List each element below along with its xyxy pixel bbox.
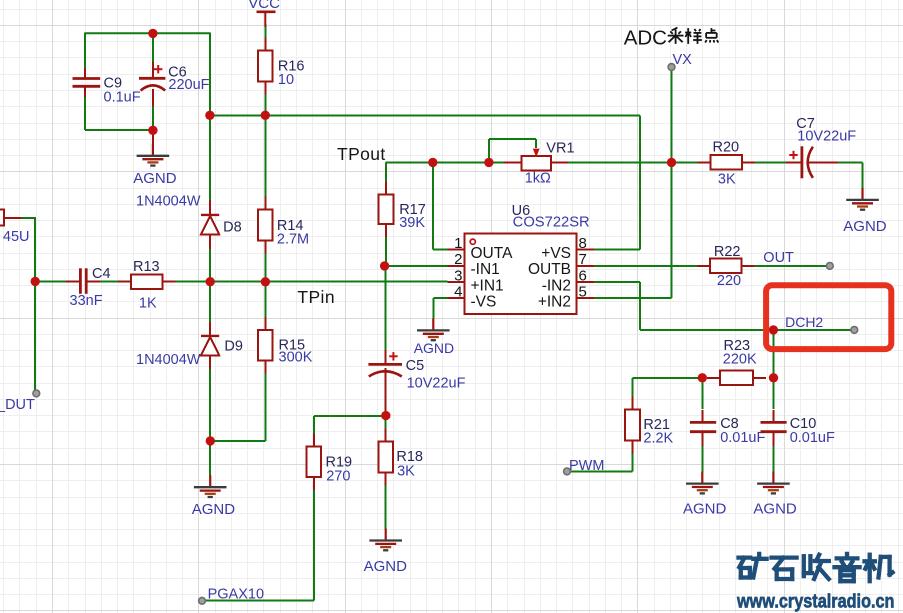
svg-text:OUTB: OUTB [528, 261, 571, 278]
svg-text:1N4004W: 1N4004W [136, 193, 201, 209]
capacitor C6 (polarized) [139, 62, 210, 106]
svg-text:COS722SR: COS722SR [513, 215, 590, 231]
wire R14 to TPin net [264, 245, 266, 282]
wire C10 to ground [772, 433, 774, 472]
wire pin8 riser [639, 115, 641, 249]
svg-text:_DUT: _DUT [0, 397, 35, 413]
potentiometer VR1 [503, 140, 574, 186]
resistor R20 [698, 139, 755, 187]
power VCC symbol [257, 12, 276, 27]
svg-text:OUTA: OUTA [471, 245, 514, 262]
capacitor C9 [73, 68, 141, 105]
wire top loop C9-C6 horizontal [85, 32, 210, 34]
svg-text:AGND: AGND [133, 170, 177, 187]
resistor R14 [258, 197, 309, 254]
svg-text:TPout: TPout [337, 144, 386, 164]
port DCH2 [851, 327, 858, 334]
junction C6 bottom [148, 126, 157, 135]
wire R21 to PWM [632, 452, 634, 471]
port OUT [826, 263, 833, 270]
junction bus / C loop [205, 111, 214, 120]
wire +VS bus y115 [210, 114, 640, 116]
resistor R18 [378, 429, 423, 486]
svg-text:R20: R20 [713, 139, 740, 155]
wire TPout to pin1 drop [432, 162, 434, 249]
wire bus to R14 [264, 115, 266, 199]
wire R23 to C8 [701, 378, 703, 409]
svg-text:300K: 300K [279, 349, 313, 365]
wire C5 to node [385, 406, 387, 416]
wire C9 bottom drop [84, 87, 86, 131]
svg-text:OUT: OUT [763, 250, 794, 266]
svg-text:0.1uF: 0.1uF [104, 89, 141, 105]
junction R23 left / C8 [698, 373, 707, 382]
svg-text:VX: VX [673, 52, 693, 68]
svg-text:C5: C5 [406, 358, 425, 374]
wire down to R21 [632, 378, 634, 398]
wire VR1 loop top [489, 138, 536, 140]
wire C8 to ground [701, 433, 703, 472]
svg-text:6: 6 [579, 267, 587, 284]
wire TPout to R17 [385, 162, 387, 182]
resistor R17 [379, 182, 426, 238]
wire C6 top drop [152, 33, 154, 64]
junction TPout / VX [667, 158, 676, 167]
junction bus / R16-R14 [261, 111, 270, 120]
wire C6 bottom drop [152, 104, 154, 130]
svg-text:www.crystalradio.cn: www.crystalradio.cn [736, 590, 894, 612]
ground AGND under D9 [194, 475, 227, 497]
svg-text:10V22uF: 10V22uF [407, 375, 466, 391]
ground AGND under C8 [686, 472, 719, 494]
svg-text:270: 270 [326, 469, 350, 485]
svg-text:1kΩ: 1kΩ [525, 171, 551, 187]
ground AGND at C7 [846, 188, 879, 210]
svg-text:-IN1: -IN1 [471, 261, 500, 278]
wire bottom C9-C6 [85, 129, 153, 131]
svg-text:R22: R22 [714, 244, 741, 260]
svg-text:10: 10 [278, 72, 294, 88]
svg-text:-IN2: -IN2 [542, 277, 571, 294]
junction R23 right / C10 [769, 373, 778, 382]
svg-text:AGND: AGND [414, 340, 454, 356]
svg-text:AGND: AGND [683, 501, 727, 518]
wire bus to D8 [209, 115, 211, 203]
junction DCH2 / R23 [769, 325, 778, 334]
wire down to AGND at C7 [862, 162, 864, 188]
resistor R15 [258, 317, 313, 374]
capacitor C5 (polarized) [368, 350, 465, 415]
wire PWM [567, 470, 633, 472]
svg-text:+IN2: +IN2 [538, 294, 571, 311]
svg-text:8: 8 [579, 235, 587, 252]
capacitor C7 (polarized) [786, 116, 856, 178]
wire C6 ground stem [152, 130, 154, 146]
wire node to R19 branch [314, 415, 386, 417]
svg-text:D8: D8 [223, 220, 242, 236]
resistor R21 [625, 397, 673, 454]
port PWM [564, 468, 571, 475]
svg-text:0.01uF: 0.01uF [790, 430, 835, 446]
wire pin2 node to C5 [385, 266, 387, 352]
svg-text:D9: D9 [224, 339, 243, 355]
resistor R19 [307, 433, 353, 490]
wire right side of C loop [209, 32, 211, 115]
junction C5 / R18 / R19 [381, 411, 390, 420]
wire PGAX10 [202, 600, 314, 602]
junction TPin / R14-R15 [261, 277, 270, 286]
svg-text:C4: C4 [92, 266, 111, 282]
wire R21 top to R23 [633, 377, 703, 379]
svg-text:+IN1: +IN1 [471, 277, 504, 294]
wire pin 8 +VS [594, 248, 640, 250]
wire C9 top drop [84, 32, 86, 78]
svg-text:2.7M: 2.7M [277, 231, 309, 247]
svg-text:33nF: 33nF [70, 293, 103, 309]
junction R17 / pin2 / C5 [380, 261, 389, 270]
port _DUT [33, 390, 40, 397]
capacitor C4 [66, 266, 111, 309]
svg-text:ADC: ADC [624, 26, 667, 49]
junction TPout / pin1 [428, 158, 437, 167]
svg-text:+VS: +VS [541, 245, 571, 262]
wire TPout net [386, 161, 801, 163]
svg-text:220: 220 [717, 273, 741, 289]
junction 45U / C4 [31, 277, 40, 286]
wire R17 to pin2 node [385, 236, 387, 266]
svg-text:0.01uF: 0.01uF [720, 430, 765, 446]
svg-text:10V22uF: 10V22uF [797, 129, 856, 145]
svg-text:1K: 1K [139, 295, 157, 311]
svg-text:3K: 3K [397, 463, 415, 479]
wire VR1 loop left [488, 139, 490, 162]
svg-text:PWM: PWM [569, 458, 604, 474]
junction top wire / C6 [148, 29, 157, 38]
wire pin 6 -IN2 [594, 281, 640, 283]
resistor R23 [707, 338, 766, 385]
wire VR1 wiper drop [535, 139, 537, 148]
wire DCH2 to R23 [772, 330, 774, 378]
wire D8 to TPin net [209, 246, 211, 282]
wire TPin to D9 [209, 282, 211, 325]
wire node to AGND [209, 441, 211, 476]
wire node to R18 [385, 416, 387, 430]
wire pin6 drop [639, 282, 641, 330]
highlight box around DCH2 [766, 285, 891, 349]
resistor R16 [258, 38, 305, 95]
svg-text:220uF: 220uF [168, 77, 209, 93]
wire pin 7 OUTB to OUT [594, 265, 830, 267]
wire to pin 2 -IN1 [385, 265, 448, 267]
svg-text:7: 7 [579, 251, 587, 268]
wire to pin 1 OUTA [433, 248, 448, 250]
svg-text:4: 4 [454, 284, 462, 301]
ground AGND under C6 [137, 144, 170, 166]
svg-text:3K: 3K [718, 171, 736, 187]
capacitor C10 [761, 410, 835, 446]
annotation ADC sampling point [624, 26, 719, 49]
diode D9 1N4004W [136, 322, 243, 369]
resistor (partial, off-canvas) [0, 210, 22, 226]
svg-text:AGND: AGND [753, 501, 797, 518]
wire node to R15 [210, 440, 265, 442]
junction D9 / R15 / AGND [206, 436, 215, 445]
wire C7 to corner [809, 161, 863, 163]
svg-text:1N4004W: 1N4004W [136, 352, 201, 368]
wire R18 to ground [385, 485, 387, 529]
wire pin 4 -VS [433, 297, 447, 299]
capacitor C8 [690, 410, 766, 446]
wire R23 to C10 [772, 378, 774, 409]
wire 45U horizontal [21, 217, 37, 219]
junction TPin / D8-D9 [206, 277, 215, 286]
wire VX down [671, 67, 673, 162]
svg-text:DCH2: DCH2 [785, 314, 823, 330]
wire to C4 [35, 281, 80, 283]
ground AGND under IC [417, 318, 450, 340]
wire 45U vertical [34, 218, 36, 393]
svg-text:AGND: AGND [364, 558, 408, 575]
svg-text:-VS: -VS [471, 294, 497, 311]
ground AGND under R18 [369, 529, 402, 551]
wire VX to pin5 [671, 162, 673, 297]
svg-text:1: 1 [454, 235, 462, 252]
svg-text:2.2K: 2.2K [643, 430, 673, 446]
wire down to R19 [313, 416, 315, 435]
svg-text:VR1: VR1 [546, 140, 574, 156]
svg-text:R13: R13 [133, 259, 160, 275]
junction TPout / VR1 wiper [484, 158, 493, 167]
svg-text:AGND: AGND [843, 218, 887, 235]
svg-text:3: 3 [454, 267, 462, 284]
wire up to R15 [264, 373, 266, 441]
svg-text:5: 5 [579, 284, 587, 301]
svg-text:39K: 39K [399, 215, 425, 231]
port PGAX10 [199, 597, 206, 604]
watermark logo text [736, 554, 894, 612]
wire R19 to PGAX10 corner [313, 489, 315, 601]
svg-text:TPin: TPin [297, 287, 335, 307]
svg-text:220K: 220K [723, 351, 757, 367]
svg-text:PGAX10: PGAX10 [208, 586, 264, 602]
wire VCC to R16 [264, 24, 266, 44]
op-amp U6 COS722SR [448, 203, 594, 314]
resistor R13 [118, 259, 175, 311]
svg-text:AGND: AGND [192, 501, 236, 518]
wire R15 to TPin net [264, 282, 266, 317]
resistor R22 [697, 244, 754, 289]
wire pin 5 +IN2 [594, 297, 672, 299]
wire D9 to node [209, 365, 211, 441]
wire R16 to bus [264, 93, 266, 115]
svg-text:45U: 45U [3, 229, 30, 245]
svg-text:2: 2 [454, 251, 462, 268]
port VX [668, 64, 675, 71]
svg-text:VCC: VCC [248, 0, 280, 12]
ground AGND under C10 [757, 472, 790, 494]
wire DCH2 net [640, 329, 854, 331]
diode D8 1N4004W [136, 193, 242, 249]
wire TPin net [86, 281, 448, 283]
wire pin4 to ground [432, 298, 434, 318]
